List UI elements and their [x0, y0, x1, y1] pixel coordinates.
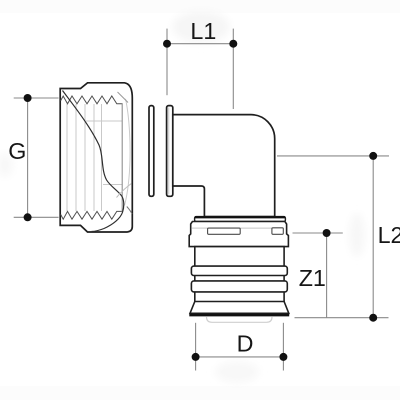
- nut top thread zigzag: [61, 96, 123, 104]
- D right extension: [282, 323, 284, 371]
- nut cone edge top diagonal: [118, 92, 129, 103]
- pipe end faint arc: [207, 317, 273, 322]
- sleeve ridge 1: [191, 266, 287, 275]
- D left extension: [195, 323, 197, 371]
- Z1 top reference line: [293, 232, 343, 234]
- flange disc: [167, 106, 173, 197]
- svg-text:Z1: Z1: [299, 265, 326, 291]
- L2 vertical line: [372, 156, 374, 318]
- inspection window left: [208, 228, 241, 234]
- inspection window right: [272, 228, 283, 235]
- svg-text:G: G: [8, 138, 26, 164]
- L2 dots: [369, 152, 377, 160]
- svg-text:D: D: [237, 330, 254, 356]
- bottom margin strip: [0, 386, 400, 400]
- flange inner shade line: [168, 108, 170, 195]
- L1 right extension: [232, 29, 234, 109]
- dimension G vertical line: [14, 98, 59, 217]
- nut light horizontal lines: [86, 120, 122, 122]
- union nut body: [60, 83, 132, 232]
- nut break curve: [63, 91, 124, 232]
- dimension D: [196, 323, 284, 371]
- faint watermark blob left: [0, 153, 13, 177]
- D dots: [192, 353, 200, 361]
- faint watermark blob top: [172, 11, 230, 43]
- svg-text:L2: L2: [378, 222, 400, 248]
- sleeve body: [195, 247, 284, 303]
- sleeve flare: [190, 302, 289, 314]
- elbow body: [173, 115, 275, 217]
- press collar: [189, 222, 288, 247]
- flare thick bottom edge: [189, 314, 289, 317]
- svg-text:L1: L1: [190, 18, 216, 44]
- dimension L1: [167, 29, 233, 109]
- bottom shared reference line: [295, 317, 389, 319]
- collar groove light lines: [192, 227, 208, 229]
- faint watermark blob right: [349, 213, 365, 257]
- nut thread light lines: [67, 99, 130, 211]
- nut right bow light curve: [125, 99, 131, 206]
- L1 left extension: [166, 29, 168, 96]
- dimension G bottom tick: [14, 216, 59, 218]
- nut faint cone diagonal: [117, 184, 132, 198]
- dimension Z1: [293, 233, 343, 318]
- L1 dots: [163, 40, 171, 48]
- top margin strip: [0, 0, 400, 13]
- faint watermark blob bottom: [215, 361, 259, 383]
- sleeve top ring thick edge: [195, 216, 285, 218]
- sleeve top ring: [195, 217, 286, 222]
- nut bottom thread zigzag: [61, 211, 123, 219]
- dimension G dots: [24, 94, 32, 102]
- dimension L2: [277, 156, 389, 318]
- sealing washer: [149, 106, 154, 197]
- nut thread bore wall: [121, 103, 123, 212]
- Z1 vertical line: [326, 233, 328, 318]
- nut cone edge small curve: [127, 207, 132, 215]
- dimension G top tick: [14, 97, 59, 99]
- Z1 dot: [323, 229, 331, 237]
- L2 top reference line: [277, 155, 389, 157]
- sleeve ridge 2: [191, 281, 287, 292]
